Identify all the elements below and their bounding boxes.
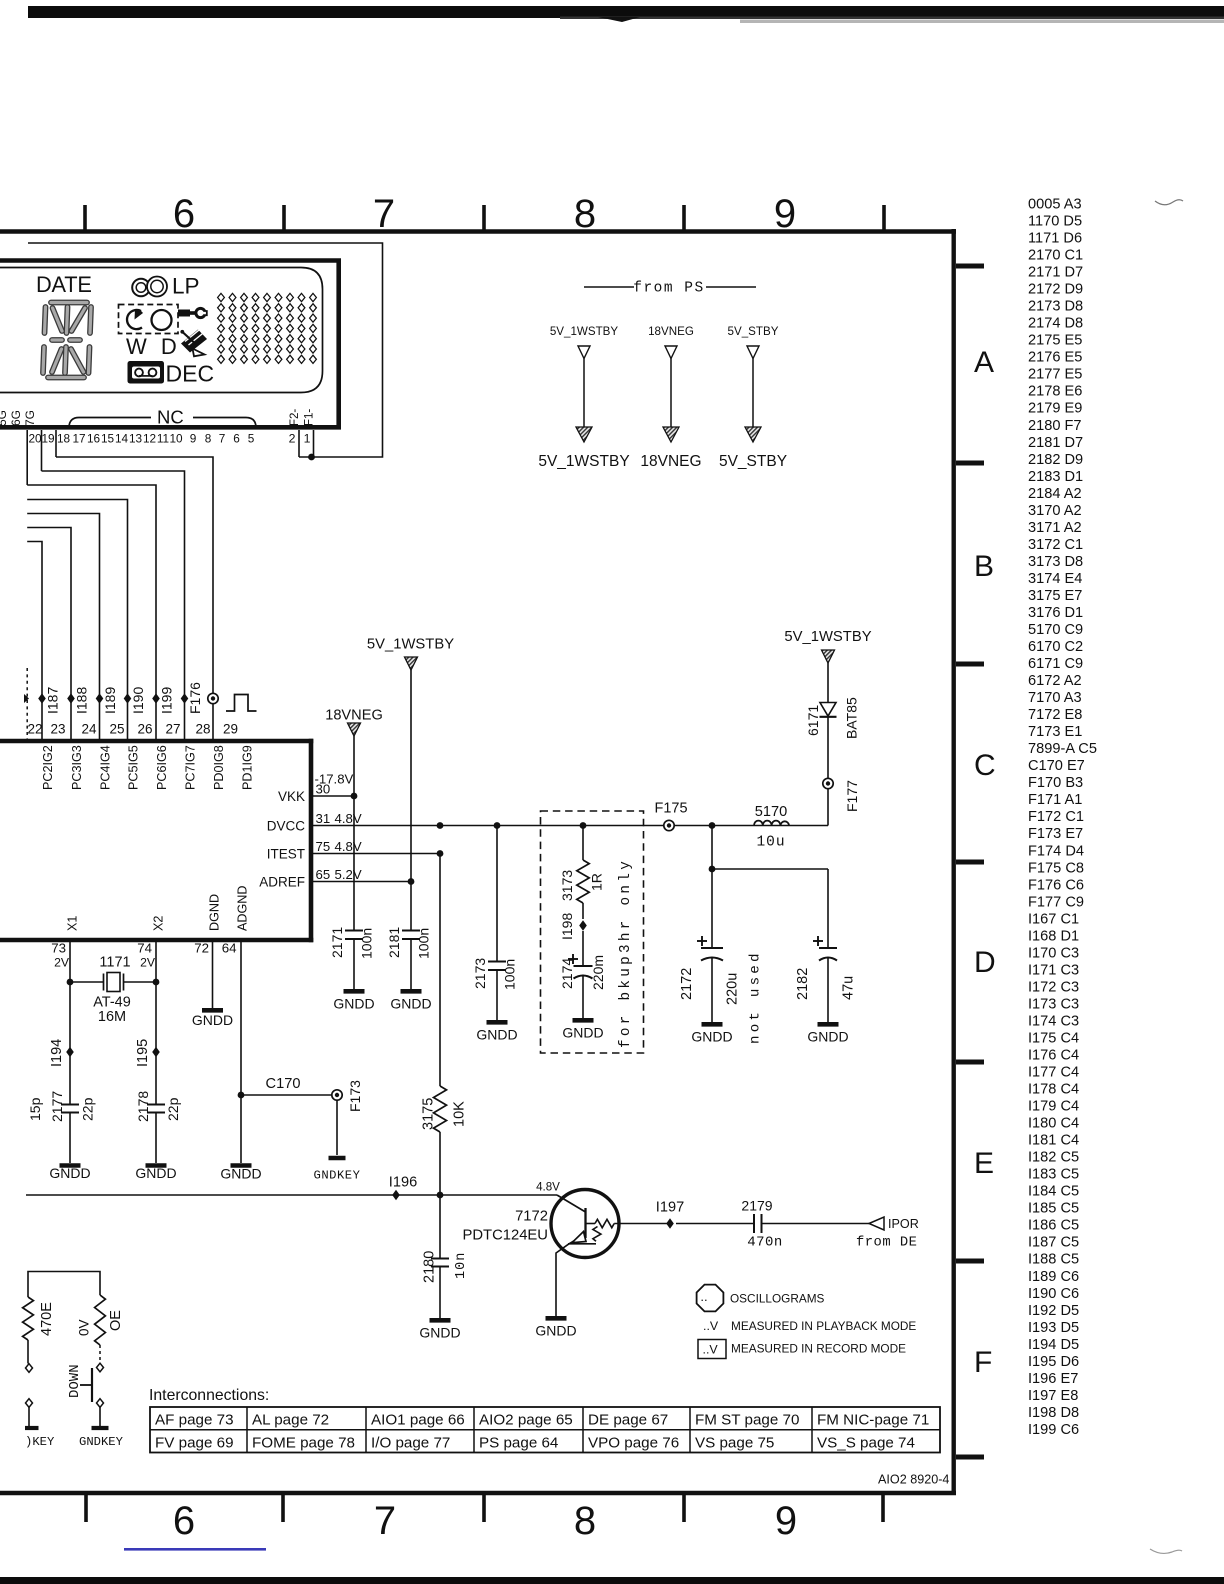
svg-text:I198: I198	[559, 913, 575, 940]
svg-text:ADREF: ADREF	[259, 875, 305, 890]
svg-text:2181 D7: 2181 D7	[1028, 435, 1083, 451]
svg-text:5170: 5170	[755, 804, 787, 820]
svg-text:B: B	[974, 550, 994, 583]
svg-text:GNDKEY: GNDKEY	[314, 1169, 361, 1183]
svg-text:2171: 2171	[329, 927, 345, 958]
svg-text:2184 A2: 2184 A2	[1028, 486, 1082, 502]
svg-text:PDTC124EU: PDTC124EU	[462, 1228, 548, 1244]
svg-text:PC3IG3: PC3IG3	[70, 745, 84, 790]
svg-text:2179: 2179	[741, 1198, 772, 1214]
svg-text:47u: 47u	[841, 976, 857, 1000]
svg-text:9: 9	[190, 432, 197, 446]
svg-text:2182: 2182	[795, 968, 811, 1000]
svg-text:19: 19	[41, 432, 54, 446]
svg-text:2180: 2180	[422, 1251, 438, 1283]
svg-text:GNDD: GNDD	[192, 1012, 233, 1028]
svg-text:1R: 1R	[589, 873, 605, 891]
svg-text:I190: I190	[130, 687, 146, 714]
svg-text:13: 13	[129, 432, 143, 446]
svg-text:from PS: from PS	[633, 281, 704, 297]
svg-text:F172 C1: F172 C1	[1028, 809, 1084, 825]
svg-text:NC: NC	[157, 407, 184, 428]
svg-text:F177: F177	[844, 780, 860, 812]
svg-text:I198 D8: I198 D8	[1028, 1405, 1079, 1421]
svg-text:PC2IG2: PC2IG2	[41, 745, 55, 790]
svg-text:BAT85: BAT85	[844, 697, 860, 739]
svg-text:GNDD: GNDD	[476, 1027, 517, 1043]
svg-text:DATE: DATE	[36, 272, 92, 297]
svg-text:F170 B3: F170 B3	[1028, 775, 1083, 791]
svg-text:470E: 470E	[39, 1302, 55, 1336]
svg-text:C170: C170	[266, 1076, 301, 1092]
svg-text:3171 A2: 3171 A2	[1028, 520, 1082, 536]
svg-text:I185 C5: I185 C5	[1028, 1201, 1079, 1217]
svg-text:15p: 15p	[27, 1097, 43, 1121]
svg-text:2183 D1: 2183 D1	[1028, 469, 1083, 485]
svg-text:GNDD: GNDD	[49, 1165, 90, 1181]
svg-text:I172 C3: I172 C3	[1028, 979, 1079, 995]
svg-text:6171 C9: 6171 C9	[1028, 656, 1083, 672]
svg-text:6: 6	[173, 192, 195, 236]
svg-text:10u: 10u	[756, 835, 785, 851]
svg-text:-17.8V: -17.8V	[315, 772, 354, 787]
svg-text:2181: 2181	[386, 927, 402, 958]
svg-text:FOME page 78: FOME page 78	[252, 1435, 355, 1452]
svg-text:5G: 5G	[0, 410, 9, 426]
svg-text:MEASURED IN RECORD MODE: MEASURED IN RECORD MODE	[731, 1342, 906, 1356]
svg-text:7172: 7172	[515, 1209, 548, 1225]
svg-text:2174: 2174	[559, 958, 575, 989]
svg-text:X1: X1	[66, 916, 80, 931]
svg-text:7170 A3: 7170 A3	[1028, 690, 1082, 706]
svg-text:1170 D5: 1170 D5	[1028, 214, 1082, 230]
svg-text:3175: 3175	[421, 1098, 437, 1130]
svg-text:14: 14	[115, 432, 129, 446]
svg-text:I189 C6: I189 C6	[1028, 1269, 1079, 1285]
svg-text:17: 17	[72, 432, 85, 446]
svg-text:28: 28	[195, 722, 210, 737]
svg-text:7: 7	[219, 432, 226, 446]
svg-text:16: 16	[87, 432, 101, 446]
svg-text:2170 C1: 2170 C1	[1028, 248, 1083, 264]
svg-text:I173 C3: I173 C3	[1028, 996, 1079, 1012]
svg-text:..V: ..V	[703, 1343, 719, 1357]
svg-text:GNDD: GNDD	[390, 996, 431, 1012]
svg-text:I181 C4: I181 C4	[1028, 1133, 1079, 1149]
svg-text:6: 6	[233, 432, 240, 446]
svg-text:2182 D9: 2182 D9	[1028, 452, 1083, 468]
svg-text:10K: 10K	[452, 1101, 468, 1127]
svg-text:OE: OE	[108, 1310, 124, 1331]
svg-text:F176: F176	[187, 682, 203, 714]
svg-text:I192 D5: I192 D5	[1028, 1303, 1079, 1319]
svg-text:C170 E7: C170 E7	[1028, 758, 1085, 774]
svg-text:I189: I189	[102, 687, 118, 714]
svg-text:I182 C5: I182 C5	[1028, 1150, 1079, 1166]
svg-text:VS_S page 74: VS_S page 74	[817, 1435, 915, 1452]
svg-text:2177: 2177	[49, 1091, 65, 1122]
svg-text:3172 C1: 3172 C1	[1028, 537, 1083, 553]
svg-text:0V: 0V	[77, 1319, 92, 1336]
svg-text:F177 C9: F177 C9	[1028, 894, 1084, 910]
svg-text:..: ..	[700, 1289, 707, 1304]
svg-text:5V_STBY: 5V_STBY	[719, 453, 787, 470]
svg-text:6170 C2: 6170 C2	[1028, 639, 1083, 655]
svg-text:75: 75	[316, 839, 331, 854]
svg-text:6G: 6G	[9, 410, 23, 426]
svg-text:F1-: F1-	[304, 409, 316, 426]
svg-text:6172 A2: 6172 A2	[1028, 673, 1082, 689]
svg-text:2178: 2178	[135, 1091, 151, 1122]
svg-text:I194: I194	[49, 1039, 65, 1067]
svg-text:470n: 470n	[747, 1235, 783, 1251]
svg-text:PC6IG6: PC6IG6	[155, 745, 169, 790]
svg-text:65: 65	[316, 867, 331, 882]
svg-text:GNDD: GNDD	[220, 1166, 261, 1182]
svg-text:6171: 6171	[805, 705, 821, 736]
svg-text:I178 C4: I178 C4	[1028, 1082, 1079, 1098]
svg-text:I180 C4: I180 C4	[1028, 1116, 1079, 1132]
svg-text:F176 C6: F176 C6	[1028, 877, 1084, 893]
svg-text:24: 24	[81, 722, 97, 737]
svg-text:IPOR: IPOR	[888, 1217, 919, 1231]
svg-text:AIO2 page 65: AIO2 page 65	[479, 1412, 573, 1429]
svg-text:8: 8	[574, 192, 596, 236]
svg-text:3173 D8: 3173 D8	[1028, 554, 1083, 570]
svg-text:23: 23	[50, 722, 65, 737]
svg-text:MEASURED IN PLAYBACK MODE: MEASURED IN PLAYBACK MODE	[731, 1319, 916, 1333]
svg-text:PS page 64: PS page 64	[479, 1435, 558, 1452]
svg-text:VPO page 76: VPO page 76	[588, 1435, 679, 1452]
svg-text:I187: I187	[45, 687, 61, 714]
svg-text:2173: 2173	[472, 958, 488, 989]
svg-text:4.8V: 4.8V	[536, 1181, 560, 1194]
svg-text:22: 22	[27, 722, 42, 737]
svg-text:7173 E1: 7173 E1	[1028, 724, 1082, 740]
svg-text:2V: 2V	[54, 956, 70, 970]
svg-text:A: A	[974, 346, 994, 379]
svg-text:26: 26	[137, 722, 152, 737]
svg-text:FM ST page 70: FM ST page 70	[695, 1412, 799, 1429]
svg-text:5V_1WSTBY: 5V_1WSTBY	[538, 453, 629, 470]
svg-text:5.2V: 5.2V	[335, 867, 362, 882]
svg-text:I174 C3: I174 C3	[1028, 1013, 1079, 1029]
svg-text:4.8V: 4.8V	[335, 839, 362, 854]
svg-text:I197 E8: I197 E8	[1028, 1388, 1078, 1404]
svg-text:2171 D7: 2171 D7	[1028, 265, 1083, 281]
svg-text:F171 A1: F171 A1	[1028, 792, 1082, 808]
svg-text:18VNEG: 18VNEG	[640, 453, 701, 470]
svg-text:6: 6	[173, 1499, 195, 1543]
svg-text:7G: 7G	[23, 410, 37, 426]
svg-text:DE page 67: DE page 67	[588, 1412, 668, 1429]
svg-text:not used: not used	[748, 950, 764, 1044]
svg-text:OSCILLOGRAMS: OSCILLOGRAMS	[730, 1292, 825, 1306]
svg-text:72: 72	[194, 941, 209, 956]
svg-text:F173: F173	[347, 1080, 363, 1112]
svg-text:GNDD: GNDD	[535, 1323, 576, 1339]
svg-text:W D: W D	[126, 334, 181, 359]
svg-text:DGND: DGND	[208, 894, 222, 931]
svg-text:I183 C5: I183 C5	[1028, 1167, 1079, 1183]
svg-text:GNDD: GNDD	[419, 1325, 460, 1341]
svg-text:PC4IG4: PC4IG4	[99, 745, 113, 790]
svg-text:I177 C4: I177 C4	[1028, 1065, 1079, 1081]
svg-text:I171 C3: I171 C3	[1028, 962, 1079, 978]
svg-text:I196 E7: I196 E7	[1028, 1371, 1078, 1387]
svg-text:DVCC: DVCC	[267, 819, 306, 834]
svg-text:100n: 100n	[416, 928, 432, 959]
svg-text:18: 18	[57, 432, 71, 446]
svg-text:AIO1 page 66: AIO1 page 66	[371, 1412, 465, 1429]
svg-text:5170 C9: 5170 C9	[1028, 622, 1083, 638]
svg-text:I184 C5: I184 C5	[1028, 1184, 1079, 1200]
svg-text:I188: I188	[74, 687, 90, 714]
svg-text:7172 E8: 7172 E8	[1028, 707, 1082, 723]
svg-text:7899-A C5: 7899-A C5	[1028, 741, 1097, 757]
svg-text:I190 C6: I190 C6	[1028, 1286, 1079, 1302]
svg-text:DOWN: DOWN	[67, 1364, 83, 1398]
svg-text:10: 10	[169, 432, 183, 446]
svg-text:VKK: VKK	[278, 789, 305, 804]
svg-text:X2: X2	[152, 916, 166, 931]
svg-text:I195: I195	[135, 1039, 151, 1067]
svg-text:3176 D1: 3176 D1	[1028, 605, 1083, 621]
svg-text:64: 64	[222, 941, 237, 956]
svg-text:F173 E7: F173 E7	[1028, 826, 1083, 842]
svg-text:PD0IG8: PD0IG8	[212, 745, 226, 790]
svg-text:F175 C8: F175 C8	[1028, 860, 1084, 876]
svg-text:GNDD: GNDD	[562, 1025, 603, 1041]
svg-text:FV page 69: FV page 69	[155, 1435, 234, 1452]
svg-text:I187 C5: I187 C5	[1028, 1235, 1079, 1251]
svg-text:AF page 73: AF page 73	[155, 1412, 234, 1429]
svg-text:I179 C4: I179 C4	[1028, 1099, 1079, 1115]
svg-text:I186 C5: I186 C5	[1028, 1218, 1079, 1234]
svg-text:18VNEG: 18VNEG	[648, 325, 694, 338]
svg-text:for bkup3hr only: for bkup3hr only	[618, 858, 634, 1048]
svg-text:Interconnections:: Interconnections:	[149, 1387, 269, 1404]
svg-text:I194 D5: I194 D5	[1028, 1337, 1079, 1353]
svg-text:2176 E5: 2176 E5	[1028, 350, 1082, 366]
svg-text:15: 15	[101, 432, 115, 446]
svg-text:31: 31	[316, 811, 331, 826]
svg-text:74: 74	[137, 941, 152, 956]
svg-text:5V_1WSTBY: 5V_1WSTBY	[550, 325, 619, 338]
svg-text:2172 D9: 2172 D9	[1028, 282, 1083, 298]
svg-text:LP: LP	[172, 274, 200, 299]
svg-text:AL page 72: AL page 72	[252, 1412, 329, 1429]
svg-text:2V: 2V	[140, 956, 156, 970]
svg-text:D: D	[974, 946, 996, 979]
svg-text:22p: 22p	[80, 1097, 96, 1121]
svg-text:10n: 10n	[454, 1252, 469, 1279]
svg-text:AIO2 8920-4: AIO2 8920-4	[878, 1473, 949, 1487]
svg-text:25: 25	[109, 722, 124, 737]
svg-text:I199: I199	[159, 687, 175, 714]
svg-text:GNDD: GNDD	[807, 1029, 848, 1045]
svg-text:73: 73	[51, 941, 66, 956]
svg-text:I196: I196	[389, 1175, 417, 1191]
svg-text:2174 D8: 2174 D8	[1028, 316, 1083, 332]
svg-text:I170 C3: I170 C3	[1028, 945, 1079, 961]
svg-text:FM NIC-page 71: FM NIC-page 71	[817, 1412, 929, 1429]
svg-text:GNDD: GNDD	[135, 1165, 176, 1181]
svg-text:2173 D8: 2173 D8	[1028, 299, 1083, 315]
svg-text:PC7IG7: PC7IG7	[184, 745, 198, 790]
svg-text:9: 9	[775, 1499, 797, 1543]
svg-text:3173: 3173	[559, 870, 575, 901]
svg-text:29: 29	[223, 722, 238, 737]
svg-text:C: C	[974, 749, 996, 782]
svg-text:27: 27	[165, 722, 180, 737]
svg-text:2178 E6: 2178 E6	[1028, 384, 1082, 400]
svg-text:8: 8	[574, 1499, 596, 1543]
svg-text:220u: 220u	[725, 973, 741, 1005]
svg-text:from DE: from DE	[856, 1235, 917, 1251]
svg-text:9: 9	[774, 192, 796, 236]
svg-text:5V_1WSTBY: 5V_1WSTBY	[367, 637, 454, 653]
svg-text:GNDD: GNDD	[691, 1029, 732, 1045]
svg-text:I195 D6: I195 D6	[1028, 1354, 1079, 1370]
svg-text:4.8V: 4.8V	[335, 811, 362, 826]
svg-text:100n: 100n	[359, 928, 375, 959]
svg-text:ITEST: ITEST	[267, 847, 305, 862]
svg-text:VS page 75: VS page 75	[695, 1435, 774, 1452]
svg-text:I176 C4: I176 C4	[1028, 1048, 1079, 1064]
svg-text:GNDD: GNDD	[333, 996, 374, 1012]
svg-text:I167 C1: I167 C1	[1028, 911, 1079, 927]
svg-text:100n: 100n	[502, 959, 518, 990]
svg-text:1: 1	[304, 432, 311, 446]
svg-text:I193 D5: I193 D5	[1028, 1320, 1079, 1336]
svg-text:2180 F7: 2180 F7	[1028, 418, 1082, 434]
svg-text:8: 8	[205, 432, 212, 446]
svg-text:ADGND: ADGND	[236, 886, 250, 931]
svg-text:12: 12	[143, 432, 156, 446]
svg-text:PD1IG9: PD1IG9	[241, 745, 255, 790]
svg-text:2179 E9: 2179 E9	[1028, 401, 1082, 417]
svg-text:3174 E4: 3174 E4	[1028, 571, 1082, 587]
svg-text:GNDKEY: GNDKEY	[79, 1435, 124, 1449]
svg-text:..V: ..V	[703, 1319, 719, 1333]
svg-text:2: 2	[289, 432, 296, 446]
svg-text:7: 7	[374, 1499, 396, 1543]
svg-text:5V_STBY: 5V_STBY	[728, 325, 779, 338]
svg-text:16M: 16M	[98, 1009, 126, 1025]
svg-text:3175 E7: 3175 E7	[1028, 588, 1082, 604]
svg-text:0005 A3: 0005 A3	[1028, 197, 1082, 213]
svg-text:F174 D4: F174 D4	[1028, 843, 1084, 859]
svg-text:18VNEG: 18VNEG	[325, 708, 383, 724]
svg-text:I/O page 77: I/O page 77	[371, 1435, 450, 1452]
svg-text:I168 D1: I168 D1	[1028, 928, 1079, 944]
svg-text:220m: 220m	[590, 955, 606, 990]
svg-text:F175: F175	[654, 801, 687, 817]
svg-text:I199 C6: I199 C6	[1028, 1422, 1079, 1438]
svg-text:F: F	[974, 1346, 992, 1379]
svg-text:5V_1WSTBY: 5V_1WSTBY	[784, 629, 871, 645]
svg-text:1171 D6: 1171 D6	[1028, 231, 1082, 247]
svg-text:2177 E5: 2177 E5	[1028, 367, 1082, 383]
svg-text:I188 C5: I188 C5	[1028, 1252, 1079, 1268]
svg-text:11: 11	[157, 432, 169, 446]
svg-text:PC5IG5: PC5IG5	[127, 745, 141, 790]
svg-text:I197: I197	[656, 1200, 684, 1216]
svg-text:E: E	[974, 1147, 994, 1180]
svg-text:5: 5	[248, 432, 255, 446]
svg-text:20: 20	[28, 432, 42, 446]
svg-text:)KEY: )KEY	[25, 1435, 55, 1449]
svg-text:2172: 2172	[679, 968, 695, 1000]
svg-text:2175 E5: 2175 E5	[1028, 333, 1082, 349]
svg-text:7: 7	[373, 192, 395, 236]
svg-text:I175 C4: I175 C4	[1028, 1030, 1079, 1046]
svg-text:DEC: DEC	[166, 361, 215, 387]
svg-text:22p: 22p	[165, 1097, 181, 1121]
svg-text:F2-: F2-	[289, 409, 301, 426]
svg-text:3170 A2: 3170 A2	[1028, 503, 1082, 519]
svg-text:1171: 1171	[99, 955, 130, 971]
